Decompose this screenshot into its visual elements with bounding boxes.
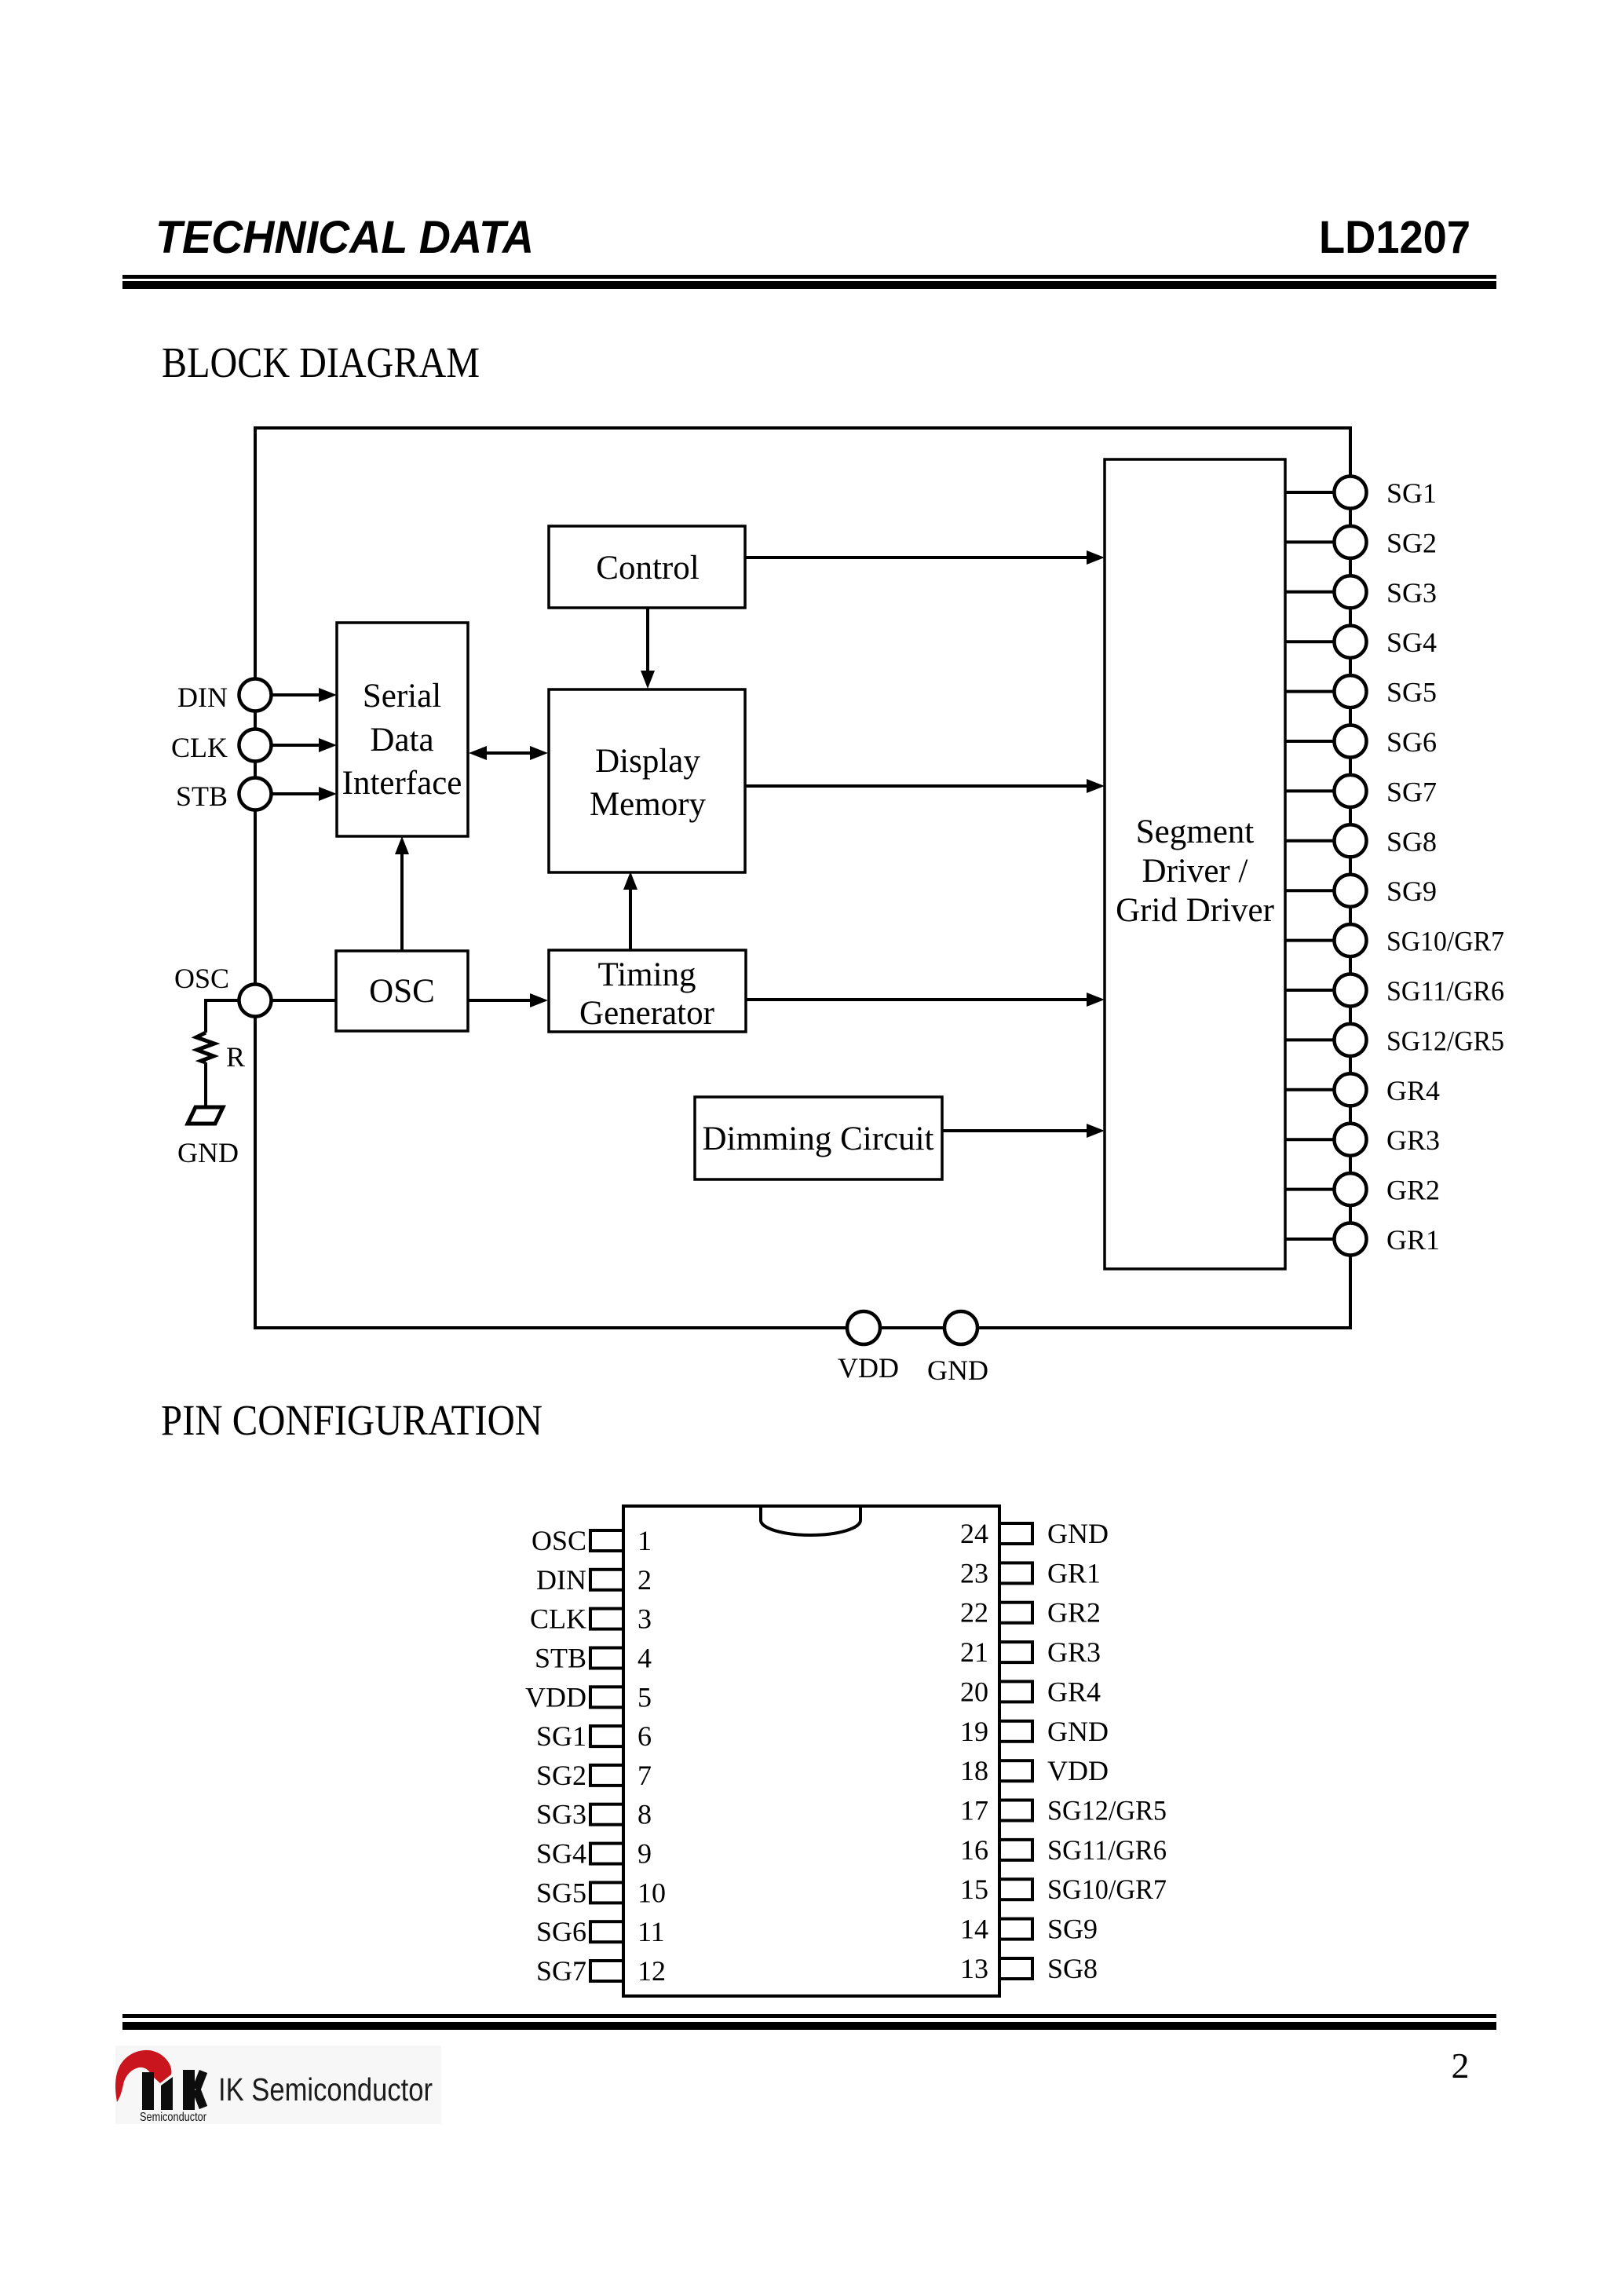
wire stub to SG7: [1285, 789, 1334, 792]
svg-text:SG5: SG5: [1386, 677, 1437, 708]
svg-text:GR4: GR4: [1047, 1676, 1101, 1707]
wire Dimming Circuit to Segment Driver: [942, 1129, 1091, 1132]
svg-text:SG6: SG6: [536, 1916, 586, 1947]
wire OSC to resistor: [206, 1000, 239, 1033]
block OSC: [336, 951, 468, 1031]
svg-text:TECHNICAL DATA: TECHNICAL DATA: [155, 212, 534, 263]
svg-text:Segment: Segment: [1136, 813, 1255, 850]
wire stub to SG2: [1285, 540, 1334, 543]
svg-text:GND: GND: [1047, 1716, 1109, 1747]
wire stub to SG8: [1285, 839, 1334, 843]
node SG4: [1335, 626, 1438, 659]
svg-text:SG3: SG3: [1386, 577, 1437, 609]
pin 23 GR1: [960, 1557, 1101, 1589]
svg-text:GR1: GR1: [1386, 1224, 1440, 1256]
wire OSC block to Timing Generator: [468, 999, 535, 1002]
svg-text:23: 23: [960, 1557, 988, 1589]
header rule thick: [122, 281, 1496, 289]
wire CLK to Serial Data Interface: [272, 744, 323, 747]
node GR1: [1335, 1223, 1441, 1256]
svg-text:Memory: Memory: [590, 786, 707, 823]
node SG10/GR7: [1335, 924, 1505, 957]
svg-text:13: 13: [960, 1953, 988, 1984]
wire stub to SG6: [1285, 740, 1334, 743]
svg-text:VDD: VDD: [838, 1352, 899, 1384]
svg-text:Timing: Timing: [597, 956, 696, 993]
svg-text:SG12/GR5: SG12/GR5: [1386, 1025, 1504, 1056]
node OSC: [174, 963, 272, 1017]
svg-text:SG1: SG1: [1386, 477, 1437, 509]
pin 18 VDD: [960, 1755, 1109, 1786]
node SG1: [1335, 477, 1438, 510]
svg-text:Dimming Circuit: Dimming Circuit: [702, 1121, 933, 1157]
wire stub to SG12/GR5: [1285, 1038, 1334, 1041]
pin 15 SG10/GR7: [960, 1874, 1167, 1905]
svg-text:VDD: VDD: [1047, 1755, 1109, 1786]
wire STB to Serial Data Interface: [272, 792, 323, 795]
wire OSC pin to OSC block: [272, 999, 336, 1002]
svg-text:16: 16: [960, 1834, 988, 1866]
svg-text:SG3: SG3: [536, 1799, 586, 1830]
svg-text:12: 12: [637, 1955, 666, 1987]
svg-text:VDD: VDD: [525, 1681, 586, 1713]
pin 24 GND: [960, 1518, 1109, 1549]
node SG11/GR6: [1335, 974, 1505, 1007]
logo red swoosh: [115, 2050, 171, 2102]
pin 5 VDD: [525, 1681, 652, 1713]
pin 6 SG1: [536, 1720, 652, 1752]
block Serial Data Interface: [337, 623, 468, 836]
wire stub to SG9: [1285, 889, 1334, 892]
svg-text:9: 9: [637, 1838, 652, 1870]
node GR3: [1335, 1124, 1441, 1157]
pin 12 SG7: [536, 1955, 666, 1987]
svg-text:PIN CONFIGURATION: PIN CONFIGURATION: [161, 1396, 542, 1444]
pin 17 SG12/GR5: [960, 1795, 1167, 1826]
pin 22 GR2: [960, 1597, 1101, 1629]
wire Timing Generator to Display Memory: [629, 884, 632, 950]
wire stub to SG4: [1285, 640, 1334, 643]
svg-text:SG8: SG8: [1386, 826, 1437, 857]
pin 8 SG3: [536, 1799, 652, 1830]
outer bus frame: [255, 428, 1350, 1328]
pin 1 OSC: [532, 1525, 652, 1556]
svg-text:Grid Driver: Grid Driver: [1116, 892, 1274, 929]
svg-text:GND: GND: [177, 1137, 239, 1168]
svg-text:DIN: DIN: [177, 682, 228, 713]
node VDD: [838, 1311, 899, 1384]
svg-text:1: 1: [637, 1525, 652, 1556]
svg-text:IK Semiconductor: IK Semiconductor: [218, 2071, 433, 2108]
pin 7 SG2: [536, 1760, 652, 1791]
wire stub to GR4: [1285, 1088, 1334, 1091]
svg-text:Driver /: Driver /: [1142, 853, 1248, 890]
pin 16 SG11/GR6: [960, 1834, 1167, 1866]
wire Control to Segment Driver: [745, 556, 1091, 559]
svg-text:OSC: OSC: [369, 973, 435, 1010]
svg-text:GR3: GR3: [1047, 1636, 1101, 1668]
node GR2: [1335, 1173, 1441, 1206]
svg-text:SG5: SG5: [536, 1877, 586, 1908]
svg-text:17: 17: [960, 1795, 988, 1826]
svg-text:GR2: GR2: [1047, 1597, 1101, 1629]
svg-text:15: 15: [960, 1874, 988, 1905]
svg-text:18: 18: [960, 1755, 988, 1786]
wire resistor to ground: [204, 1062, 207, 1107]
svg-text:GR4: GR4: [1386, 1075, 1440, 1106]
ground: [177, 1107, 239, 1168]
footer rule thick: [122, 2022, 1496, 2030]
pin 20 GR4: [960, 1676, 1101, 1707]
wire stub to SG3: [1285, 590, 1334, 594]
svg-text:Control: Control: [596, 550, 699, 587]
wire stub to GR1: [1285, 1238, 1334, 1241]
block Segment Driver / Grid Driver: [1105, 459, 1285, 1269]
wire OSC to Serial Data Interface: [400, 850, 404, 951]
svg-text:SG10/GR7: SG10/GR7: [1386, 926, 1504, 957]
node SG8: [1335, 824, 1438, 857]
pin 14 SG9: [960, 1914, 1098, 1945]
block Timing Generator: [549, 950, 746, 1032]
wire Display Memory to Segment Driver: [745, 784, 1091, 788]
svg-text:OSC: OSC: [532, 1525, 586, 1556]
svg-text:Data: Data: [370, 722, 433, 759]
svg-text:Semiconductor: Semiconductor: [140, 2111, 207, 2124]
svg-text:2: 2: [637, 1564, 652, 1596]
svg-text:SG12/GR5: SG12/GR5: [1047, 1795, 1167, 1826]
node GR4: [1335, 1073, 1441, 1106]
pin 21 GR3: [960, 1636, 1101, 1668]
svg-text:DIN: DIN: [536, 1564, 586, 1596]
svg-text:SG6: SG6: [1386, 726, 1437, 758]
wire Serial Data Interface to Display Memory bidirectional: [482, 751, 535, 755]
svg-text:Display: Display: [595, 743, 700, 780]
pin 11 SG6: [536, 1916, 665, 1947]
svg-text:2: 2: [1452, 2046, 1470, 2086]
svg-text:SG4: SG4: [536, 1838, 586, 1870]
node SG7: [1335, 775, 1438, 808]
svg-text:21: 21: [960, 1636, 988, 1668]
svg-text:SG2: SG2: [1386, 527, 1437, 558]
pin 2 DIN: [536, 1564, 652, 1596]
block Display Memory: [549, 689, 745, 872]
node SG2: [1335, 526, 1438, 559]
svg-text:SG8: SG8: [1047, 1953, 1098, 1984]
svg-text:R: R: [226, 1041, 245, 1073]
wire Control to Display Memory: [646, 608, 649, 675]
pin 9 SG4: [536, 1838, 652, 1870]
svg-text:3: 3: [637, 1603, 652, 1635]
pin 10 SG5: [536, 1877, 666, 1908]
svg-text:10: 10: [637, 1877, 666, 1908]
svg-text:22: 22: [960, 1597, 988, 1629]
svg-text:OSC: OSC: [174, 963, 229, 994]
svg-text:GR1: GR1: [1047, 1557, 1101, 1589]
wire stub to GR3: [1285, 1138, 1334, 1141]
node SG3: [1335, 576, 1438, 609]
svg-text:GND: GND: [927, 1355, 988, 1386]
wire stub to SG10/GR7: [1285, 939, 1334, 942]
pin 19 GND: [960, 1716, 1109, 1747]
wire DIN to Serial Data Interface: [272, 693, 323, 696]
wire stub to SG1: [1285, 491, 1334, 494]
block Control: [549, 526, 745, 608]
svg-text:SG10/GR7: SG10/GR7: [1047, 1874, 1167, 1905]
svg-text:STB: STB: [535, 1643, 586, 1674]
wire stub to GR2: [1285, 1188, 1334, 1191]
pin 4 STB: [535, 1643, 652, 1674]
svg-text:SG2: SG2: [536, 1760, 586, 1791]
svg-text:11: 11: [637, 1916, 665, 1947]
footer rule thin: [122, 2014, 1496, 2018]
node CLK: [171, 729, 272, 764]
node SG5: [1335, 675, 1438, 708]
svg-text:SG7: SG7: [1386, 776, 1437, 807]
svg-text:20: 20: [960, 1676, 988, 1707]
wire Timing Generator to Segment Driver: [746, 998, 1091, 1001]
pin 13 SG8: [960, 1953, 1098, 1984]
pin 3 CLK: [530, 1603, 652, 1635]
node SG9: [1335, 875, 1438, 908]
node DIN: [177, 679, 271, 714]
node SG6: [1335, 726, 1438, 759]
IC pin-1 index notch: [761, 1508, 860, 1535]
node SG12/GR5: [1335, 1024, 1505, 1057]
wire stub to SG11/GR6: [1285, 989, 1334, 992]
svg-text:SG4: SG4: [1386, 627, 1437, 658]
svg-text:GND: GND: [1047, 1518, 1109, 1549]
svg-text:BLOCK DIAGRAM: BLOCK DIAGRAM: [162, 338, 480, 386]
svg-text:4: 4: [637, 1643, 652, 1674]
svg-text:GR3: GR3: [1386, 1124, 1440, 1156]
node STB: [176, 778, 272, 813]
wire stub to SG5: [1285, 690, 1334, 693]
svg-text:14: 14: [960, 1914, 988, 1945]
svg-text:SG9: SG9: [1386, 876, 1437, 907]
resistor R: [196, 1033, 245, 1073]
svg-text:19: 19: [960, 1716, 988, 1747]
svg-text:5: 5: [637, 1681, 652, 1713]
svg-text:CLK: CLK: [171, 732, 228, 763]
node GND: [927, 1311, 988, 1386]
svg-text:SG7: SG7: [536, 1955, 586, 1987]
svg-text:CLK: CLK: [530, 1603, 586, 1635]
logo IK mark: [142, 2070, 203, 2110]
svg-text:8: 8: [637, 1799, 652, 1830]
svg-text:SG11/GR6: SG11/GR6: [1386, 975, 1504, 1007]
svg-text:6: 6: [637, 1720, 652, 1752]
svg-text:STB: STB: [176, 781, 228, 812]
header rule thin: [122, 275, 1496, 279]
svg-text:24: 24: [960, 1518, 988, 1549]
svg-text:LD1207: LD1207: [1319, 212, 1470, 263]
svg-text:Interface: Interface: [342, 765, 462, 802]
svg-text:SG9: SG9: [1047, 1914, 1098, 1945]
svg-text:7: 7: [637, 1760, 652, 1791]
logo background: [115, 2046, 441, 2124]
block Dimming Circuit: [695, 1097, 942, 1179]
svg-text:GR2: GR2: [1386, 1175, 1440, 1206]
svg-text:SG1: SG1: [536, 1720, 586, 1752]
svg-text:SG11/GR6: SG11/GR6: [1047, 1834, 1167, 1866]
svg-text:Serial: Serial: [363, 678, 441, 715]
svg-text:Generator: Generator: [579, 995, 714, 1032]
IC package body U1: [623, 1506, 999, 1996]
